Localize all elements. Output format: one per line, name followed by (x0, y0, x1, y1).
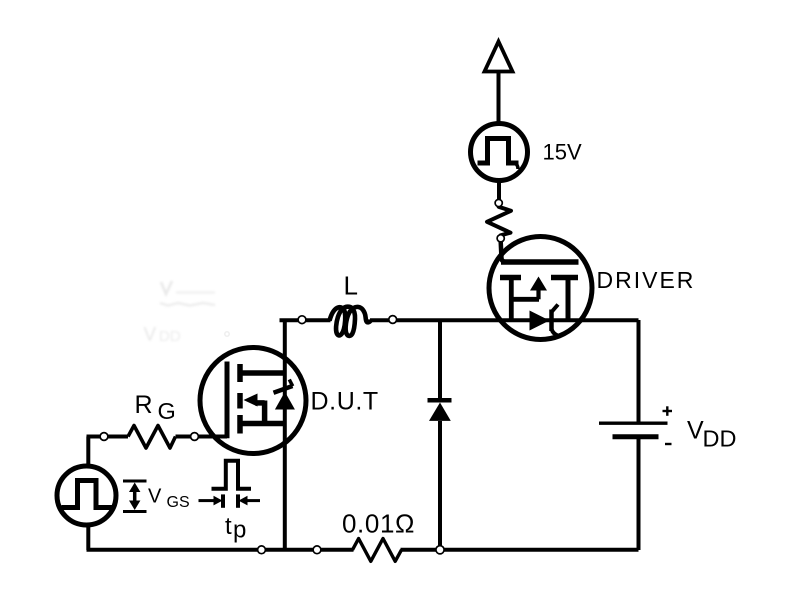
svg-text:DD: DD (703, 426, 737, 452)
svg-text:V: V (148, 486, 162, 508)
svg-text:0.01Ω: 0.01Ω (342, 509, 415, 539)
svg-text:L: L (344, 271, 358, 301)
svg-text:t: t (225, 513, 232, 540)
svg-text:15V: 15V (543, 140, 582, 165)
svg-text:R: R (135, 391, 153, 419)
svg-text:D.U.T: D.U.T (311, 388, 379, 416)
svg-text:V: V (687, 417, 704, 445)
svg-text:G: G (158, 398, 176, 424)
svg-text:DRIVER: DRIVER (597, 267, 696, 293)
svg-text:V: V (144, 325, 157, 346)
svg-text:GS: GS (167, 494, 190, 511)
svg-text:p: p (233, 517, 246, 544)
svg-text:DD: DD (159, 328, 181, 345)
